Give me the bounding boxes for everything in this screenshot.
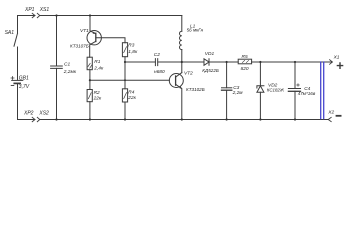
svg-text:XP1: XP1 [24, 7, 35, 13]
svg-text:22к: 22к [127, 95, 136, 101]
svg-text:VT1: VT1 [80, 28, 89, 34]
svg-text:R2: R2 [94, 90, 100, 96]
svg-text:R1: R1 [94, 59, 100, 65]
svg-text:1,8к: 1,8к [128, 49, 138, 55]
svg-text:2,4к: 2,4к [93, 66, 104, 72]
svg-text:3,7V: 3,7V [19, 84, 30, 90]
svg-text:XP2: XP2 [23, 110, 34, 116]
svg-text:R4: R4 [128, 90, 134, 96]
svg-text:VT2: VT2 [184, 70, 193, 76]
svg-text:КС182Ж: КС182Ж [267, 87, 285, 92]
svg-text:X2: X2 [327, 110, 334, 116]
svg-text:C3: C3 [233, 85, 239, 91]
svg-text:R3: R3 [128, 43, 134, 49]
svg-text:КТ3107Б: КТ3107Б [70, 44, 89, 49]
svg-text:C2: C2 [154, 52, 160, 58]
svg-text:2,2мк: 2,2мк [63, 69, 77, 75]
svg-text:C1: C1 [64, 62, 70, 68]
svg-text:КТ3102Б: КТ3102Б [186, 87, 205, 92]
svg-text:н680: н680 [154, 69, 165, 75]
svg-text:VD1: VD1 [205, 51, 215, 57]
svg-text:SA1: SA1 [5, 30, 15, 36]
svg-text:X1: X1 [333, 54, 340, 60]
svg-text:820: 820 [241, 66, 249, 72]
svg-text:XS2: XS2 [38, 110, 49, 116]
svg-text:R5: R5 [242, 54, 248, 60]
svg-text:47м*16в: 47м*16в [298, 91, 316, 96]
svg-text:2,2м: 2,2м [232, 90, 244, 96]
svg-text:56 мкГн: 56 мкГн [187, 28, 204, 33]
svg-text:22к: 22к [93, 96, 102, 102]
svg-text:XS1: XS1 [39, 7, 50, 13]
svg-text:GB1: GB1 [19, 75, 29, 81]
svg-text:КД522Б: КД522Б [202, 68, 219, 73]
